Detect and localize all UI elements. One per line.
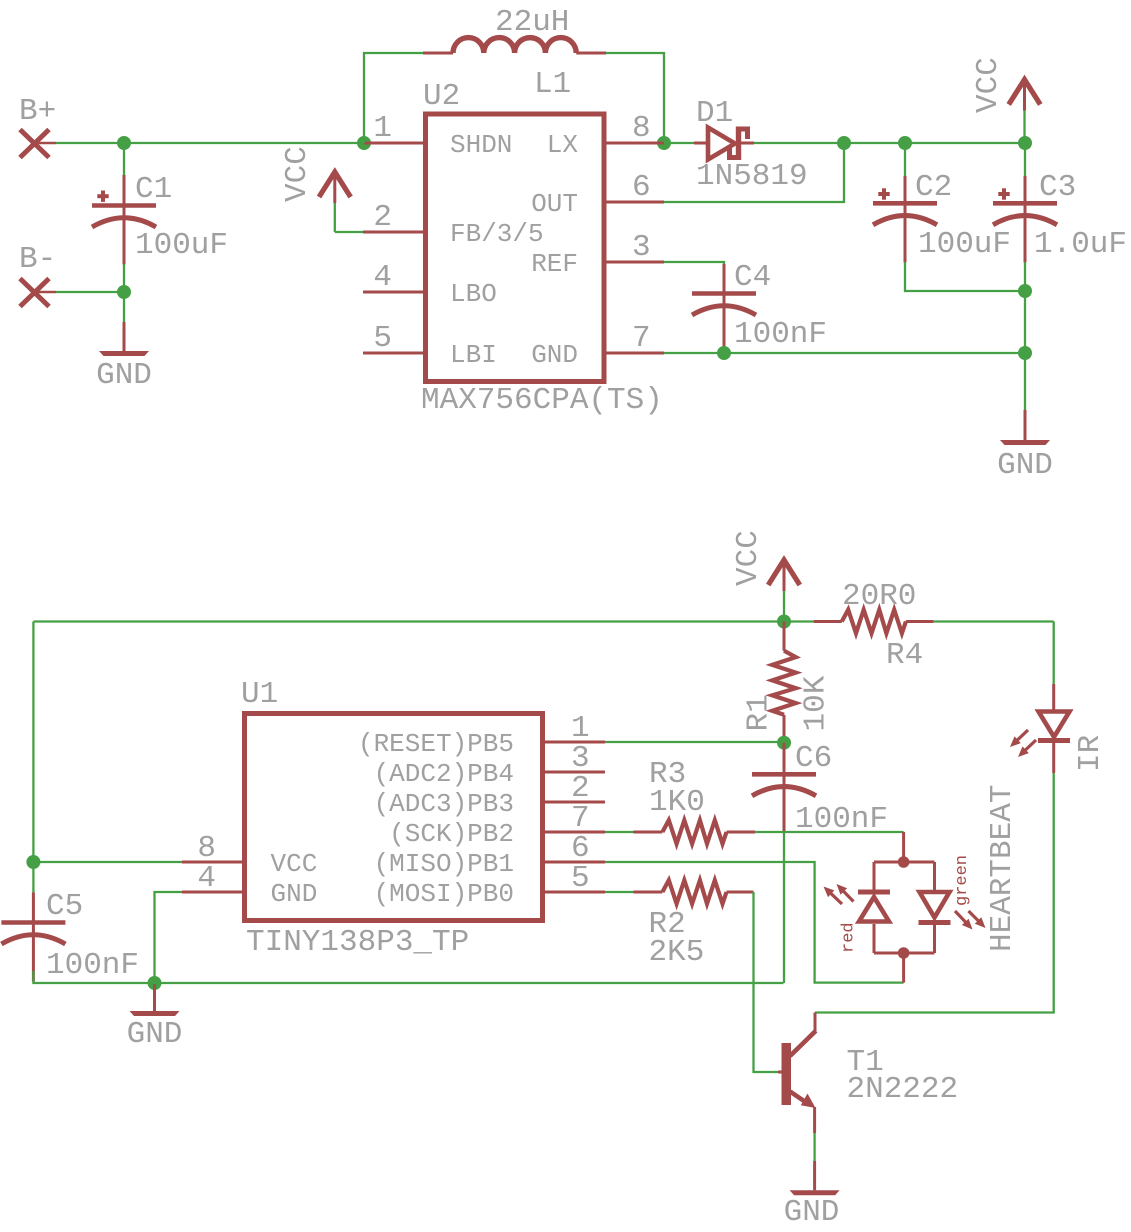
U2 pin 3 stub bbox=[606, 261, 664, 264]
svg-text:5: 5 bbox=[373, 321, 392, 356]
ground (T1) bbox=[790, 1161, 840, 1195]
value 100nF (C4) bbox=[734, 317, 827, 352]
pin number 5 (U1) bbox=[571, 861, 590, 896]
wire C1 bottom bbox=[123, 264, 125, 292]
value 100nF (C5) bbox=[46, 948, 139, 983]
svg-text:3: 3 bbox=[632, 230, 651, 265]
svg-text:red: red bbox=[840, 922, 859, 953]
junction VCC/R1/R4 bbox=[777, 615, 791, 629]
capacitor C5 bbox=[1, 862, 65, 982]
junction C3/VCC top bbox=[1018, 136, 1032, 150]
junction C2/C3 bottom bbox=[1018, 284, 1032, 298]
svg-text:LBO: LBO bbox=[450, 279, 497, 309]
label C2 bbox=[915, 170, 952, 205]
label C1 bbox=[135, 172, 172, 207]
svg-text:GND: GND bbox=[784, 1195, 840, 1230]
pin name SHDN bbox=[450, 130, 512, 160]
capacitor C6 bbox=[752, 743, 816, 834]
IC U2 box bbox=[426, 114, 605, 382]
diode D1 bbox=[694, 127, 754, 161]
resistor R1 bbox=[772, 622, 796, 743]
svg-text:IR: IR bbox=[1073, 735, 1108, 772]
wire L1 to LX node bbox=[606, 53, 664, 143]
label GND (U1) bbox=[127, 1017, 183, 1052]
svg-text:B-: B- bbox=[19, 242, 56, 277]
pin name GND bbox=[531, 340, 578, 370]
svg-text:5: 5 bbox=[571, 861, 590, 896]
wire REF to C4 bbox=[664, 262, 724, 264]
label R1 vertical bbox=[742, 694, 777, 731]
capacitor C4 bbox=[692, 264, 756, 353]
label U2 bbox=[423, 79, 460, 114]
U2 pin 8 stub bbox=[606, 142, 664, 145]
supply VCC arrow (bottom) bbox=[768, 560, 800, 622]
pin number 2 (U1) bbox=[571, 771, 590, 806]
label GND (top right) bbox=[997, 448, 1053, 483]
wire VCC top rail (bottom sheet) bbox=[33, 620, 784, 622]
LED IR bbox=[1038, 684, 1070, 773]
junction LED bottom bbox=[898, 947, 910, 959]
value 10K vertical bbox=[799, 675, 834, 731]
pin number 5 bbox=[373, 321, 392, 356]
wire C2 bottom bbox=[905, 262, 1025, 291]
svg-text:10K: 10K bbox=[799, 675, 834, 731]
capacitor C2 bbox=[873, 143, 937, 262]
junction GND right bbox=[1018, 346, 1032, 360]
value MAX756CPA(TS) bbox=[421, 383, 663, 418]
junction C1 top bbox=[117, 136, 131, 150]
LED green branch bottom bbox=[933, 925, 936, 953]
svg-text:D1: D1 bbox=[696, 96, 733, 131]
svg-text:C5: C5 bbox=[46, 889, 83, 924]
value TINY138P3_TP bbox=[246, 925, 469, 960]
svg-text:GND: GND bbox=[127, 1017, 183, 1052]
label GND (C1) bbox=[96, 358, 152, 393]
wire GND bottom rail bbox=[33, 971, 783, 983]
LED green arrows bbox=[955, 911, 986, 930]
label VCC vertical (bottom) bbox=[731, 530, 766, 586]
svg-text:SHDN: SHDN bbox=[450, 130, 512, 160]
pad cross B- bbox=[20, 279, 56, 307]
pin name REF bbox=[531, 249, 578, 279]
label C5 bbox=[46, 889, 83, 924]
label red vertical bbox=[840, 922, 859, 953]
pin number 4 bbox=[373, 260, 392, 295]
pin number 8 (U1) bbox=[197, 831, 216, 866]
label HEARTBEAT vertical bbox=[985, 785, 1020, 952]
U1 right pin stub 6 bbox=[545, 861, 605, 864]
supply VCC arrow (pin2) bbox=[319, 172, 351, 232]
U2 pin 5 stub bbox=[363, 352, 423, 355]
label U1 bbox=[241, 677, 278, 712]
transistor T1 base wire bbox=[778, 1071, 782, 1074]
wire VCC to pin 2 bbox=[335, 231, 363, 233]
U2 pin 7 stub bbox=[606, 352, 664, 355]
svg-text:HEARTBEAT: HEARTBEAT bbox=[985, 785, 1020, 952]
svg-text:100nF: 100nF bbox=[734, 317, 827, 352]
wire up to L1 bbox=[364, 53, 423, 143]
pin number 1 bbox=[373, 111, 392, 146]
ground (C1) bbox=[99, 322, 149, 356]
wire R4 to IR branch bbox=[933, 620, 1053, 622]
pin name (SCK)PB2 bbox=[389, 819, 514, 849]
resistor R3 bbox=[605, 820, 755, 844]
svg-text:R4: R4 bbox=[886, 638, 923, 673]
U1 right pin stub 1 bbox=[545, 741, 605, 744]
label VCC vertical bbox=[280, 146, 315, 202]
label 22uH bbox=[495, 5, 569, 40]
svg-text:TINY138P3_TP: TINY138P3_TP bbox=[246, 925, 469, 960]
U1 right pin stub 3 bbox=[545, 771, 605, 774]
wire R3 to LEDs bbox=[755, 831, 903, 833]
wire OUT to rail bbox=[664, 143, 844, 202]
svg-text:6: 6 bbox=[632, 170, 651, 205]
label green vertical bbox=[953, 855, 972, 906]
pin number 4 (U1) bbox=[197, 861, 216, 896]
wire C4 to GND net bbox=[723, 347, 725, 353]
wire to ground bbox=[123, 292, 125, 322]
svg-text:1.0uF: 1.0uF bbox=[1034, 227, 1127, 262]
pin number 8 bbox=[632, 111, 651, 146]
wire B- to C1 bbox=[56, 291, 124, 293]
svg-text:(MOSI)PB0: (MOSI)PB0 bbox=[374, 879, 514, 909]
wire C6 to GND rail bbox=[783, 833, 785, 983]
svg-text:100nF: 100nF bbox=[46, 948, 139, 983]
svg-text:LBI: LBI bbox=[450, 340, 497, 370]
svg-text:22uH: 22uH bbox=[495, 5, 569, 40]
svg-text:2: 2 bbox=[373, 200, 392, 235]
label C3 bbox=[1039, 170, 1076, 205]
U2 pin 4 stub bbox=[363, 291, 423, 294]
pin name FB/3/5 bbox=[450, 219, 544, 249]
label GND (T1) bbox=[784, 1195, 840, 1230]
value 2N2222 bbox=[847, 1072, 959, 1107]
svg-text:C1: C1 bbox=[135, 172, 172, 207]
wire IR to T1 collector bbox=[815, 773, 1054, 1013]
pin number 6 (U1) bbox=[571, 831, 590, 866]
svg-text:GND: GND bbox=[96, 358, 152, 393]
pin number 2 bbox=[373, 200, 392, 235]
pin name (ADC3)PB3 bbox=[374, 789, 514, 819]
svg-text:GND: GND bbox=[271, 879, 318, 909]
svg-text:MAX756CPA(TS): MAX756CPA(TS) bbox=[421, 383, 663, 418]
supply VCC arrow (top right) bbox=[1009, 80, 1041, 144]
capacitor C3 bbox=[993, 143, 1057, 262]
LED green triangle bbox=[920, 892, 950, 918]
ground (top right) bbox=[1000, 410, 1050, 445]
junction B- node bbox=[117, 285, 131, 299]
LED red branch bottom bbox=[873, 924, 876, 953]
value 20R0 bbox=[842, 579, 916, 614]
label IR vertical bbox=[1073, 735, 1108, 772]
pin name (RESET)PB5 bbox=[358, 729, 514, 759]
wire pin8 VCC bbox=[33, 861, 182, 863]
svg-text:2K5: 2K5 bbox=[649, 935, 705, 970]
value 1K0 bbox=[649, 785, 705, 820]
svg-text:4: 4 bbox=[197, 861, 216, 896]
svg-text:green: green bbox=[953, 855, 972, 906]
pin name (MOSI)PB0 bbox=[374, 879, 514, 909]
pin number 1 (U1) bbox=[571, 711, 590, 746]
svg-text:GND: GND bbox=[997, 448, 1053, 483]
svg-text:1K0: 1K0 bbox=[649, 785, 705, 820]
label T1 bbox=[847, 1045, 884, 1080]
node B+ label bbox=[19, 94, 56, 129]
svg-text:7: 7 bbox=[632, 321, 651, 356]
LED red branch top bbox=[873, 862, 876, 890]
pin number 3 (U1) bbox=[571, 741, 590, 776]
wire D1 to VCC rail bbox=[754, 142, 1025, 144]
U1 pin 8 stub bbox=[182, 861, 242, 864]
resistor R2 bbox=[605, 880, 754, 904]
LED red triangle bbox=[859, 897, 889, 922]
wire left rail bbox=[32, 622, 34, 863]
wire pin7 GND net bbox=[664, 352, 1025, 354]
svg-text:GND: GND bbox=[531, 340, 578, 370]
pin name LBI bbox=[450, 340, 497, 370]
svg-text:(ADC3)PB3: (ADC3)PB3 bbox=[374, 789, 514, 819]
svg-text:(RESET)PB5: (RESET)PB5 bbox=[358, 729, 514, 759]
svg-text:(SCK)PB2: (SCK)PB2 bbox=[389, 819, 514, 849]
svg-text:U2: U2 bbox=[423, 79, 460, 114]
svg-text:VCC: VCC bbox=[280, 146, 315, 202]
svg-text:REF: REF bbox=[531, 249, 578, 279]
LED green branch top bbox=[933, 862, 936, 890]
svg-text:FB/3/5: FB/3/5 bbox=[450, 219, 544, 249]
wire B+ to U2 pin 1 bbox=[56, 142, 364, 144]
IC U1 box bbox=[245, 714, 543, 921]
wire emitter to ground bbox=[813, 1133, 815, 1161]
label L1 bbox=[534, 67, 571, 102]
svg-text:(ADC2)PB4: (ADC2)PB4 bbox=[374, 759, 514, 789]
svg-text:C3: C3 bbox=[1039, 170, 1076, 205]
pin name LBO bbox=[450, 279, 497, 309]
pin number 6 bbox=[632, 170, 651, 205]
label R2 bbox=[649, 907, 686, 942]
U1 right pin stub 2 bbox=[545, 801, 605, 804]
value 1.0uF (C3) bbox=[1034, 227, 1127, 262]
svg-text:VCC: VCC bbox=[271, 849, 318, 879]
inductor L1 bbox=[423, 38, 606, 53]
junction LX node bbox=[657, 136, 671, 150]
junction GND rail bbox=[148, 976, 162, 990]
pin name (ADC2)PB4 bbox=[374, 759, 514, 789]
svg-text:2N2222: 2N2222 bbox=[847, 1072, 959, 1107]
ground (U1) bbox=[130, 983, 180, 1016]
wire IR branch down bbox=[1053, 622, 1055, 685]
label R3 bbox=[649, 757, 686, 792]
svg-text:OUT: OUT bbox=[531, 189, 578, 219]
LED IR arrows bbox=[1010, 730, 1036, 757]
svg-text:C2: C2 bbox=[915, 170, 952, 205]
label D1 bbox=[696, 96, 733, 131]
wire pin4 GND bbox=[155, 892, 183, 983]
svg-text:R1: R1 bbox=[742, 694, 777, 731]
LED red (cathode bar) bbox=[858, 890, 890, 895]
value 2K5 bbox=[649, 935, 705, 970]
junction R1/C6/PB5 bbox=[777, 736, 791, 750]
LED bottom rail bbox=[874, 952, 935, 955]
resistor R4 bbox=[784, 610, 933, 634]
LED red arrows bbox=[824, 884, 854, 904]
junction C4 bottom bbox=[717, 346, 731, 360]
U2 pin 1 stub bbox=[364, 142, 423, 145]
junction LED top bbox=[898, 856, 910, 868]
diode D1 wire in bbox=[664, 142, 694, 144]
svg-text:VCC: VCC bbox=[731, 530, 766, 586]
wire stub R3 to LED rail bbox=[902, 832, 905, 862]
pin number 3 bbox=[632, 230, 651, 265]
svg-text:20R0: 20R0 bbox=[842, 579, 916, 614]
LED green (cathode bar) bbox=[919, 920, 951, 925]
value 100uF (C2) bbox=[918, 227, 1011, 262]
U1 pin 4 stub bbox=[182, 891, 242, 894]
value 100uF (C1) bbox=[135, 228, 228, 263]
pin number 7 (U1) bbox=[571, 801, 590, 836]
capacitor C1 bbox=[92, 143, 156, 265]
U2 pin 6 stub bbox=[606, 201, 664, 204]
U1 right pin stub 5 bbox=[545, 891, 605, 894]
wire C3 bottom bbox=[1024, 262, 1026, 291]
label VCC vertical (top right) bbox=[971, 57, 1006, 113]
svg-text:1N5819: 1N5819 bbox=[696, 159, 808, 194]
svg-text:VCC: VCC bbox=[971, 57, 1006, 113]
wire GND column bbox=[1024, 291, 1026, 410]
label R4 bbox=[886, 638, 923, 673]
wire pin1 PB5 bbox=[605, 741, 784, 743]
pin name VCC (U1) bbox=[271, 849, 318, 879]
svg-text:100uF: 100uF bbox=[135, 228, 228, 263]
wire R2 to T1 base bbox=[754, 892, 779, 1072]
pin name (MISO)PB1 bbox=[374, 849, 514, 879]
svg-text:U1: U1 bbox=[241, 677, 278, 712]
LED top rail bbox=[874, 861, 935, 864]
pin number 7 bbox=[632, 321, 651, 356]
T1 emitter lead bbox=[813, 1107, 816, 1133]
node B- label bbox=[19, 242, 56, 277]
U1 right pin stub 7 bbox=[545, 831, 605, 834]
junction C2 top bbox=[898, 136, 912, 150]
svg-text:4: 4 bbox=[373, 260, 392, 295]
svg-text:B+: B+ bbox=[19, 94, 56, 129]
junction VCC/C5 tap bbox=[26, 855, 40, 869]
U2 pin 2 stub bbox=[363, 231, 423, 234]
svg-text:100uF: 100uF bbox=[918, 227, 1011, 262]
svg-text:1: 1 bbox=[373, 111, 392, 146]
junction L1 tap bbox=[357, 136, 371, 150]
wire pin6 PB1 to LED bottom bbox=[605, 862, 904, 983]
svg-text:8: 8 bbox=[632, 111, 651, 146]
transistor T1 bbox=[782, 1013, 816, 1109]
value 100nF (C6) bbox=[795, 802, 888, 837]
svg-text:L1: L1 bbox=[534, 67, 571, 102]
label C4 bbox=[734, 260, 771, 295]
pin name LX bbox=[547, 130, 579, 160]
pin name OUT bbox=[531, 189, 578, 219]
wire stub LED rail down bbox=[902, 953, 905, 983]
junction OUT tap bbox=[837, 136, 851, 150]
pin name GND (U1) bbox=[271, 879, 318, 909]
svg-text:C6: C6 bbox=[795, 741, 832, 776]
svg-text:C4: C4 bbox=[734, 260, 771, 295]
label C6 bbox=[795, 741, 832, 776]
pad cross B+ bbox=[20, 130, 56, 158]
svg-text:(MISO)PB1: (MISO)PB1 bbox=[374, 849, 514, 879]
svg-text:LX: LX bbox=[547, 130, 579, 160]
value 1N5819 bbox=[696, 159, 808, 194]
